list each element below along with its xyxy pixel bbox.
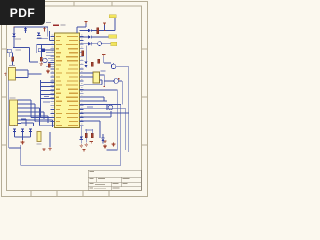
wire stair 3	[80, 112, 129, 114]
wire net to U1 pin1	[14, 27, 48, 37]
wire U3 back	[84, 80, 103, 85]
wire row	[48, 61, 55, 63]
wire bus row to U1	[41, 86, 55, 88]
power P2	[102, 55, 105, 57]
diode D3	[13, 129, 16, 132]
transistor Q2	[43, 58, 47, 62]
J1 label	[10, 97, 16, 98]
U1 right pins 24-46 (stubs + names + numbers)	[66, 35, 84, 127]
resistor R8	[82, 51, 84, 56]
power P1	[103, 23, 106, 25]
wire pin row to Q3	[80, 100, 108, 102]
wire Q1 to U1	[45, 49, 55, 51]
wire U3 to Q6	[104, 80, 114, 82]
ground G2	[46, 70, 50, 73]
wire row C	[80, 43, 89, 45]
sheet zone tick marks	[2, 2, 148, 197]
diode D8	[88, 42, 91, 45]
label bottom	[85, 130, 93, 131]
diode D14	[101, 138, 104, 141]
ground G3	[21, 141, 25, 144]
wire J1 row 6	[21, 120, 53, 127]
ground G6	[85, 143, 89, 146]
wire bottom-left link	[9, 147, 21, 149]
switch S1 (small box)	[7, 49, 11, 53]
U1 designator label	[53, 24, 66, 26]
label near R1	[15, 39, 21, 51]
PDF badge	[0, 0, 45, 25]
ground G5	[80, 144, 84, 147]
wire U1 pin row to right	[80, 89, 118, 91]
transistor Q6	[114, 79, 119, 84]
resistor R6	[98, 59, 100, 63]
node junction J-A	[13, 26, 14, 27]
wire row B	[80, 36, 89, 38]
wire row C cont	[91, 43, 98, 45]
net label VCC (yellow)	[109, 15, 116, 18]
wire bus row to U1	[41, 98, 55, 100]
junction dot U3	[104, 86, 105, 87]
junction dot Q6	[118, 78, 119, 79]
J1 pin stubs	[18, 100, 22, 124]
wire stair 1	[80, 104, 121, 106]
IC U1 body	[55, 33, 80, 128]
wire Q5 top	[113, 63, 115, 64]
wire J1 row 1	[21, 100, 55, 118]
wire row	[46, 52, 55, 54]
wire to ground	[22, 132, 24, 140]
wire right vertical drop	[107, 90, 118, 150]
resistor R4	[97, 28, 99, 34]
ground G4	[48, 147, 52, 150]
U2 label	[9, 65, 15, 66]
power P3	[90, 142, 93, 144]
wire long bottom run	[21, 105, 121, 166]
power flag P8	[43, 28, 46, 32]
wire bus row to U1	[41, 82, 55, 84]
wire U3 out right	[100, 75, 105, 86]
title block frame	[88, 170, 141, 190]
sheet outer border	[2, 2, 148, 197]
wire J1 row 4	[21, 112, 44, 119]
resistor R5	[91, 62, 93, 66]
wire to D4	[21, 119, 26, 126]
wire P1 to row A	[104, 25, 106, 30]
diode D6	[88, 29, 91, 32]
wire below badge	[37, 38, 48, 40]
power P7	[84, 22, 87, 24]
wire Q1 top	[40, 44, 42, 49]
wire U1 top power	[77, 24, 86, 34]
wire lower row	[80, 121, 101, 138]
capacitor C1	[91, 133, 93, 137]
resistor R7	[85, 133, 87, 137]
net label net-C (yellow)	[111, 42, 117, 45]
wire D10 feed	[85, 46, 87, 62]
wire J1 row 2	[21, 104, 55, 122]
wire bus row to U1	[41, 94, 55, 96]
wire U1 to U3 a	[84, 72, 94, 74]
resistor R1	[12, 57, 14, 62]
wire D12 down	[80, 140, 82, 144]
wire J1 row 5	[21, 116, 48, 123]
resistor R2	[40, 57, 42, 61]
label right bus	[87, 107, 93, 108]
power P5	[103, 141, 106, 143]
wire C1 top	[91, 129, 93, 133]
wire vertical join	[27, 70, 29, 78]
power P6	[82, 150, 85, 152]
wire to transistor bus	[28, 73, 41, 75]
wire J1 row 3	[21, 108, 55, 126]
wire row	[46, 66, 55, 68]
diode D11	[85, 65, 88, 68]
title block text marks	[90, 171, 130, 189]
label U3	[101, 71, 106, 72]
wire R7 top	[85, 129, 87, 133]
wire D2 branch	[25, 27, 27, 33]
wire D14 vertical	[102, 134, 104, 144]
wire P2 to Q5	[104, 57, 111, 63]
wire stair 2	[80, 109, 126, 150]
diode D2	[24, 28, 27, 31]
wire R7 down	[85, 138, 87, 143]
wire stair 3 drop	[128, 113, 130, 152]
wire pin row jog	[80, 97, 105, 101]
wire to D5	[21, 123, 34, 126]
wire left of Q1	[36, 44, 38, 53]
crystal Y1	[37, 132, 41, 142]
label near D13	[37, 38, 42, 39]
label left bus	[43, 96, 50, 103]
wire row	[48, 58, 55, 60]
diode D1	[12, 34, 15, 37]
resistor R3	[48, 64, 50, 68]
wire diode commons	[15, 132, 31, 137]
ground G1	[39, 62, 43, 65]
optocoupler U2 body	[9, 68, 16, 81]
wire S1 to R1	[8, 53, 10, 57]
wire R1 top	[12, 53, 14, 57]
wire row	[46, 55, 55, 57]
wire U2 out A	[16, 69, 29, 71]
diode D12	[80, 137, 83, 140]
diode D5	[29, 129, 32, 132]
wire long left vertical	[8, 80, 10, 148]
U1 left pins 1-23 (stubs + names + numbers)	[51, 35, 63, 127]
diode D10	[85, 62, 88, 65]
power P4	[42, 149, 45, 151]
wire row A	[80, 30, 89, 32]
wire R1 bottom	[12, 61, 14, 65]
wire row C cont2	[102, 43, 111, 45]
wire left bus vertical	[40, 80, 42, 118]
IC U3 body	[93, 72, 100, 83]
wire Q1 to R2	[40, 52, 42, 58]
wire row A cont	[91, 18, 115, 31]
wire bus row to U1	[41, 90, 55, 92]
wire U1 to U3 b	[84, 76, 94, 78]
wire to Q3	[80, 111, 112, 117]
wire to D3	[14, 125, 16, 128]
transistor Q1	[38, 49, 45, 52]
diode D4	[21, 129, 24, 132]
wire to U1 pin3	[37, 44, 55, 46]
junction dot P1/rowA	[104, 30, 105, 31]
wire Q5 to right bus	[116, 66, 129, 113]
wire Q6 to stair	[119, 81, 123, 105]
wire horizontal	[13, 47, 30, 49]
transistor Q5	[111, 64, 116, 69]
Y1 label	[37, 143, 42, 144]
wire row B cont	[91, 36, 108, 38]
port flag left margin	[4, 73, 6, 77]
wire to ground G4	[49, 132, 51, 147]
connector J1 body	[10, 100, 18, 126]
wire to U1 pin2	[49, 31, 54, 41]
net label VCC above U1	[46, 22, 51, 23]
diode D7	[88, 35, 91, 38]
diode D13	[37, 33, 40, 36]
ground G8	[112, 143, 116, 146]
wire left drop	[13, 27, 15, 48]
wire U1 to D12	[80, 126, 82, 137]
sheet inner border	[7, 6, 142, 191]
transistor Q3	[107, 105, 113, 110]
wire U2 out B	[16, 77, 29, 79]
net label net-B (yellow)	[109, 35, 117, 38]
ground G7	[103, 145, 107, 148]
wire to left bus	[30, 48, 39, 63]
diode D9 (circle style)	[98, 42, 102, 46]
junction dot row A	[105, 30, 106, 31]
